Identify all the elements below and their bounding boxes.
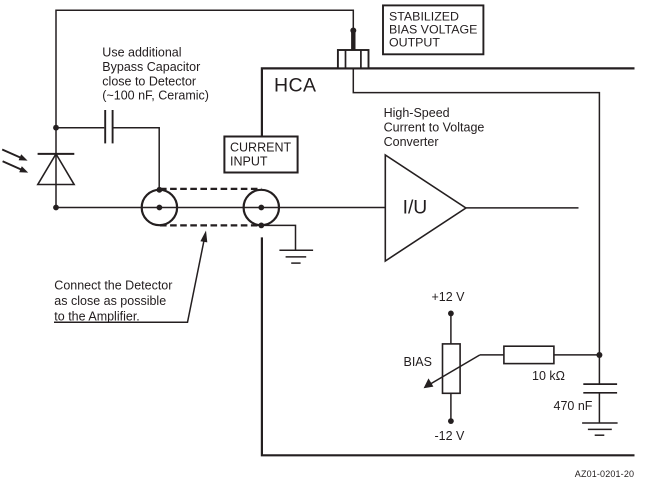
svg-text:CURRENT: CURRENT: [230, 140, 291, 154]
note text: Connect the Detector as close as possible to the Amplifier.: [54, 278, 172, 323]
svg-text:+12 V: +12 V: [432, 290, 466, 304]
svg-text:as close as possible: as close as possible: [54, 294, 166, 308]
note arrow: underline and leader pointing at the coax cable: [54, 231, 207, 323]
svg-text:470 nF: 470 nF: [554, 399, 593, 413]
svg-text:-12 V: -12 V: [435, 429, 466, 443]
connector P1: cable plug at detector side: [142, 187, 177, 225]
wire: main signal line (detector anode to op-amp input): [56, 207, 385, 209]
junction: bias node: [596, 352, 602, 358]
wire: bias feed inside box (connector down, across, down to bias node): [353, 69, 599, 385]
resistor R2: 10 kOhm body: [504, 346, 554, 363]
svg-text:I/U: I/U: [403, 198, 428, 219]
svg-text:close to Detector: close to Detector: [102, 74, 196, 88]
ground: input shield ground: [279, 250, 313, 263]
svg-text:BIAS: BIAS: [404, 355, 433, 369]
capacitor C2: 470 nF plates: [583, 384, 617, 393]
wire: potentiometer to -12 V: [450, 393, 452, 421]
svg-text:Bypass Capacitor: Bypass Capacitor: [102, 60, 200, 74]
wire: op-amp output: [466, 207, 579, 209]
svg-text:Converter: Converter: [384, 135, 439, 149]
light arrow 1 into photodiode: [2, 150, 27, 161]
svg-text:10 kΩ: 10 kΩ: [532, 369, 565, 383]
svg-text:(~100 nF, Ceramic): (~100 nF, Ceramic): [102, 89, 209, 103]
wire: capacitor C2 to ground: [598, 393, 600, 423]
wire: bias loop from detector cathode node up and across to output connector pin: [56, 10, 353, 207]
wire: wiper to resistor R2: [480, 354, 504, 356]
wire: +12 V to potentiometer: [450, 313, 452, 344]
wire: resistor R2 to bias node: [554, 354, 600, 356]
junction: anode corner node: [53, 205, 59, 211]
svg-text:to the Amplifier.: to the Amplifier.: [54, 309, 139, 323]
photodiode D1 (cathode bar + triangle, light input): [38, 154, 75, 185]
svg-text:High-Speed: High-Speed: [384, 106, 450, 120]
svg-text:INPUT: INPUT: [230, 154, 268, 168]
junction: connector pin node: [350, 28, 356, 34]
wire: capacitor to detector-plug shell: [114, 128, 160, 190]
connector J2 center pin (thick stub): [351, 31, 355, 51]
svg-text:HCA: HCA: [274, 74, 316, 96]
note text: Use additional Bypass Capacitor close to Detector (~100 nF, Ceramic): [102, 45, 209, 102]
svg-text:Current to Voltage: Current to Voltage: [384, 120, 485, 134]
ground: bias filter ground: [582, 423, 618, 435]
wire: cathode node to bypass capacitor: [56, 127, 104, 129]
svg-text:Use additional: Use additional: [102, 45, 181, 59]
potentiometer R1 wiper arrow: [424, 355, 480, 388]
label box: CURRENT INPUT: [224, 137, 297, 173]
potentiometer R1: BIAS adjust body: [443, 344, 461, 393]
svg-text:BIAS VOLTAGE: BIAS VOLTAGE: [389, 22, 477, 36]
connector J1: CURRENT INPUT jack: [244, 190, 279, 229]
node: +12 V terminal dot: [448, 311, 454, 317]
svg-text:AZ01-0201-20: AZ01-0201-20: [575, 469, 634, 479]
node: -12 V terminal dot: [448, 418, 454, 424]
junction: cathode / bypass-cap branch node: [53, 125, 59, 131]
coax cable between plugs (dashed shield lines): [160, 189, 261, 226]
label box: STABILIZED BIAS VOLTAGE OUTPUT: [383, 5, 483, 54]
wire: jack shield to ground: [261, 225, 295, 250]
capacitor C1: bypass capacitor (~100 nF) plates: [105, 110, 112, 143]
op-amp U1: I/U converter triangle: [385, 155, 466, 261]
svg-text:OUTPUT: OUTPUT: [389, 35, 440, 49]
connector J2: stabilized bias voltage output feed-through: [338, 50, 369, 68]
label: High-Speed Current to Voltage Converter: [384, 106, 485, 149]
light arrow 2 into photodiode: [3, 161, 29, 172]
svg-text:Connect the Detector: Connect the Detector: [54, 278, 172, 292]
enclosure: HCA amplifier box (top, left segments, bottom; right side open): [262, 68, 635, 455]
